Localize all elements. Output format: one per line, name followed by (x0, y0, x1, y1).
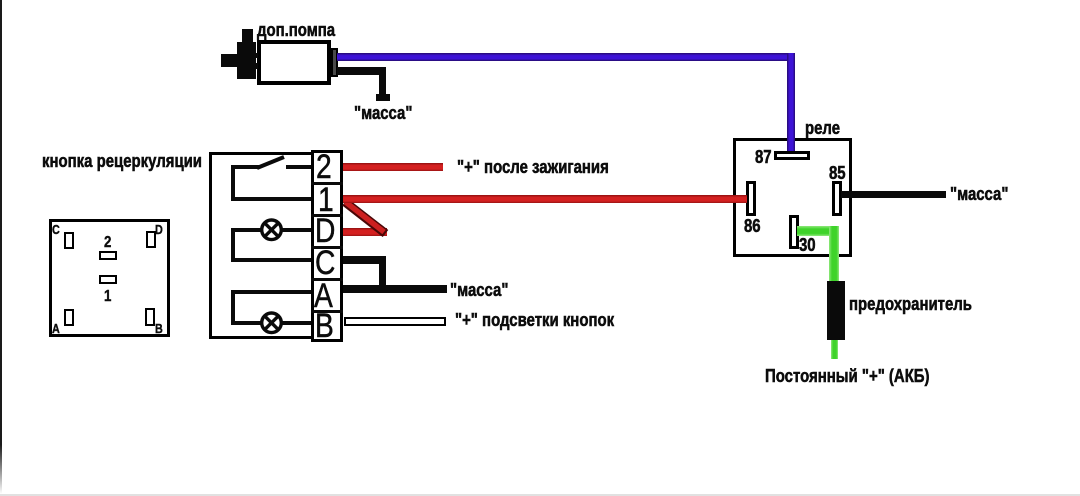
connector pin 1 slot (99, 275, 117, 284)
relay pin 85 label (829, 164, 846, 182)
connector letter C (52, 223, 60, 236)
connector pin A (64, 309, 74, 326)
pin 2 letter (316, 150, 332, 184)
button connector face box (49, 219, 170, 337)
lamp bracket left vertical A/B (231, 290, 235, 324)
connector pin C (64, 232, 74, 249)
pin column divider D/C (311, 246, 343, 249)
pin column frame (311, 150, 343, 342)
lamp bracket A top wire (231, 290, 311, 294)
pin A letter (314, 279, 333, 313)
pin column divider 2/1 (311, 182, 343, 185)
connector pin B (145, 308, 155, 326)
fuse F1 (827, 281, 845, 340)
connector letter B (155, 322, 163, 335)
wire black pump to ground (337, 67, 386, 75)
wire purple horizontal pump to relay (337, 53, 795, 61)
wire black pump ground vertical (379, 67, 386, 95)
pump right terminal (331, 48, 338, 77)
relay pin 86 bar (746, 181, 756, 216)
label масса button (450, 281, 508, 299)
ground terminal bar pump (376, 94, 390, 101)
battery label Постоянный + АКБ (765, 367, 930, 385)
switch wire top segment left (231, 165, 259, 169)
pump body M1 (257, 40, 331, 85)
lamp bracket C bottom wire (231, 258, 311, 262)
lamp bracket D top wire (231, 228, 311, 232)
wire black pin C stub (343, 256, 386, 264)
wire red pin 2 to ignition (343, 163, 443, 171)
wire purple vertical down to relay pin 87 (787, 53, 795, 152)
connector pin 1 label (104, 289, 111, 305)
connector letter D (155, 223, 163, 236)
lamp HL2 circle (262, 313, 282, 333)
pin D letter (315, 214, 335, 248)
pin column divider C/A (311, 278, 343, 281)
wire black relay 85 to ground (841, 191, 946, 198)
pump left fitting arm (221, 54, 237, 67)
pin 1 letter (318, 183, 334, 217)
relay label реле (805, 119, 840, 137)
pin column divider A/B (311, 310, 343, 313)
pump fitting tab upper (254, 53, 258, 58)
label + backlight (455, 311, 614, 329)
pump label доп.помпа (257, 21, 335, 39)
relay purple wire into pin 87 (787, 138, 795, 152)
pin B letter (315, 309, 334, 343)
pump ground label масса (354, 104, 412, 122)
pin column divider 1/D (311, 214, 343, 217)
relay box K1 (733, 138, 852, 257)
wire black pin A to ground (343, 285, 447, 293)
switch blade S1 (257, 157, 284, 168)
wire green pin 30 horizontal (797, 226, 839, 236)
switch bracket left vertical (231, 165, 235, 201)
pump fitting tab lower (254, 63, 258, 69)
wire red pin 1 to relay 86 (343, 195, 747, 203)
bottom page edge line (0, 494, 1080, 496)
label масса relay (950, 185, 1008, 203)
lamp HL1 circle (262, 220, 282, 240)
relay pin 86 label (744, 217, 761, 235)
connector pin 2 slot (99, 251, 117, 260)
button label кнопка рецеркуляции (42, 152, 202, 170)
label + after ignition (457, 158, 609, 176)
connector pin D (146, 231, 156, 248)
lamp bracket left vertical D/C (231, 228, 235, 262)
wire white pin B backlight (344, 317, 446, 326)
lamp bracket B bottom wire (231, 321, 311, 325)
relay pin 30 label (799, 236, 816, 254)
pump left fitting main block (237, 42, 256, 79)
wire red pin D stub (343, 228, 387, 236)
left page edge line (0, 0, 2, 494)
connector pin 2 label (104, 235, 111, 251)
switch wire top segment right (286, 165, 311, 169)
relay pin 87 label (755, 148, 772, 166)
switch bracket bottom to pin 1 (231, 197, 311, 201)
red jumper wire pin1 to pin D (345, 202, 386, 234)
pump left fitting top stub (242, 29, 253, 43)
button switch block outline (209, 152, 314, 339)
fuse label предохранитель (849, 295, 972, 313)
wire black C down join (379, 256, 386, 292)
relay pin 87 bar (774, 151, 810, 160)
wire green vertical to fuse (829, 226, 839, 282)
connector letter A (52, 322, 60, 335)
wire green below fuse (831, 340, 838, 359)
pin C letter (315, 246, 335, 280)
relay pin 30 bar (789, 215, 799, 249)
relay pin 85 bar (832, 181, 842, 216)
